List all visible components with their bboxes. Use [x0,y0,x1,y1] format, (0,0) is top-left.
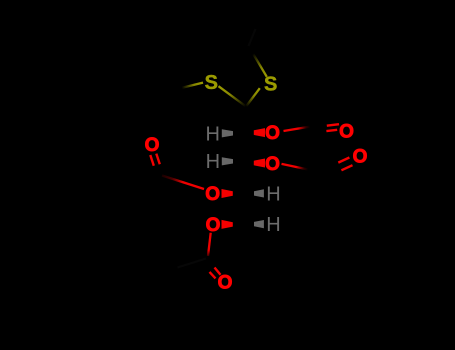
bond S2-CH2 (olive fading up-left) [249,46,267,77]
wedge C5-O (red visible half, wide left) [222,220,233,229]
ester C bond C-O red half to C4 ester O [162,176,204,190]
svg-text:H: H [266,183,280,205]
svg-text:H: H [266,214,280,236]
ester D C=O right red dash [215,268,221,275]
svg-text:O: O [145,135,160,156]
svg-text:O: O [205,184,220,205]
wedge C3-H (gray visible half, wide left) [222,157,233,165]
ester C C=O right red dash [156,154,160,165]
wedge C4-H (gray visible half, wide right) [254,189,264,197]
wedge C3-O (red visible half, wide right) [254,159,265,168]
wedge C5-H (gray visible half, wide right) [254,220,264,228]
ester D bond O-C red part (vertical, from C5 ester O) [208,233,211,256]
ester B bond O-C red half (C3 acyl) [282,164,309,170]
bond S1-C1 (olive fading to C1) [219,86,247,106]
ester D methyl bond (faint near-black, down-left) [178,259,207,268]
wedge C2-H (gray visible half, wide left) [222,129,233,137]
bond CH2-CH3 ethyl top (faint near-black) [249,29,256,46]
wedge C4-O (red visible half, wide left) [222,189,233,198]
ester A bond O-C red half (C2 acyl) [284,127,311,131]
svg-text:H: H [206,151,220,173]
svg-text:O: O [265,123,280,144]
svg-text:O: O [218,272,233,293]
ester B C=O lower red dash [341,165,352,170]
svg-text:O: O [339,121,354,142]
ester D C=O left red dash [210,272,216,279]
svg-text:O: O [265,154,280,175]
wedge C2-O (red visible half, wide right) [254,128,265,137]
svg-text:H: H [205,124,219,146]
bond S1-CH3 (olive fading left) [178,83,203,89]
ester C C=O left red dash [150,155,154,166]
svg-text:S: S [205,72,218,94]
svg-text:O: O [353,146,368,167]
ester A C=O upper red dash [327,124,339,126]
bond S2-C1 (olive fading to C1) [246,88,260,106]
svg-text:O: O [206,215,221,236]
ester B C=O upper red dash [338,158,349,163]
ester A C=O lower red dash [326,130,337,131]
